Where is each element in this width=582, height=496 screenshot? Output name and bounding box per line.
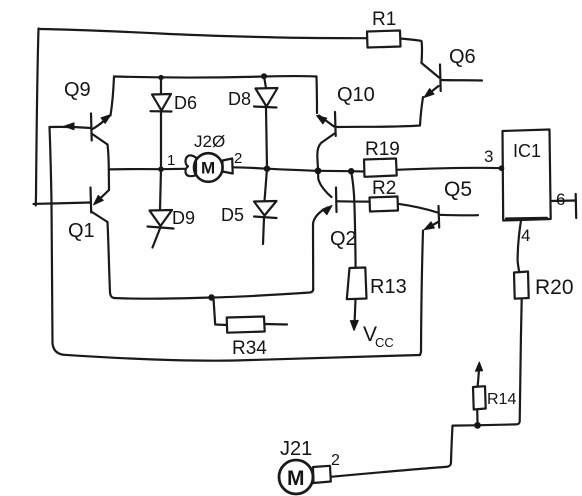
wire R1 to Q6 collector xyxy=(401,39,423,64)
svg-text:Q9: Q9 xyxy=(64,79,91,101)
wire middle rail right of motor xyxy=(233,167,365,171)
wire left inner vertical to bottom rail xyxy=(50,127,65,355)
node R14/R20 junction xyxy=(474,422,481,429)
wire R19 to IC1 pin3 xyxy=(397,168,502,170)
wire Q1 collector down xyxy=(108,222,115,298)
svg-text:IC1: IC1 xyxy=(513,141,541,161)
svg-text:1: 1 xyxy=(167,152,175,169)
svg-text:M: M xyxy=(201,159,215,178)
transistor Q5 xyxy=(424,178,478,230)
wire R2 to Q5 base xyxy=(398,204,438,213)
svg-text:6: 6 xyxy=(556,190,565,209)
node 2 xyxy=(264,166,270,172)
wire Q9 collector / Q1 emitter vertical xyxy=(108,145,110,191)
svg-text:Q2: Q2 xyxy=(330,228,357,250)
wire Q2 emitter vertical xyxy=(313,208,328,290)
wire R13 branch vertical xyxy=(351,171,355,267)
svg-text:4: 4 xyxy=(521,226,530,245)
resistor R34 xyxy=(214,299,288,360)
wire outer left border xyxy=(36,29,39,206)
svg-text:J2Ø: J2Ø xyxy=(194,132,225,151)
resistor R2 xyxy=(370,178,399,212)
wire middle rail (motor row) xyxy=(109,168,185,171)
diode D6 xyxy=(151,78,198,170)
svg-text:D6: D6 xyxy=(174,93,197,113)
diode D5 xyxy=(221,169,277,244)
svg-text:R34: R34 xyxy=(232,338,267,359)
wire bottom inner rail xyxy=(114,290,313,299)
wire Q10 collector to top rail xyxy=(315,77,318,114)
motor J20 xyxy=(167,132,242,182)
resistor R13 xyxy=(347,268,407,300)
node IC1 pin3 xyxy=(499,165,505,171)
svg-text:Q10: Q10 xyxy=(337,84,375,106)
wire Q9 emitter up to rail xyxy=(111,77,115,116)
wire bottom rail xyxy=(64,355,420,361)
wire top rail xyxy=(39,29,366,38)
svg-text:R20: R20 xyxy=(535,276,574,299)
node 1 xyxy=(158,166,164,172)
svg-text:3: 3 xyxy=(484,147,493,166)
svg-text:D5: D5 xyxy=(221,205,244,225)
motor J21 xyxy=(279,438,340,494)
node R13 junction xyxy=(348,168,354,174)
resistor R20 xyxy=(514,272,574,300)
transistor Q2 xyxy=(318,172,369,251)
svg-text:Q5: Q5 xyxy=(444,178,472,201)
wire IC1 pin6 xyxy=(551,190,577,218)
node Q10 emitter junction xyxy=(315,168,322,175)
svg-text:2: 2 xyxy=(234,150,242,167)
diode D8 xyxy=(228,76,278,169)
wire IC1 pin4 xyxy=(518,221,531,273)
svg-text:2: 2 xyxy=(331,452,340,469)
wire R20 down to node xyxy=(481,299,522,426)
wire Q5 emitter down to bottom rail xyxy=(420,231,423,356)
transistor Q10 xyxy=(317,84,375,170)
svg-text:R19: R19 xyxy=(365,139,400,160)
wire top mid rail xyxy=(114,76,317,77)
svg-text:CC: CC xyxy=(375,335,394,350)
power Vcc arrow xyxy=(350,299,393,350)
svg-text:D8: D8 xyxy=(228,89,251,109)
svg-text:R2: R2 xyxy=(372,178,396,199)
resistor R19 xyxy=(364,139,400,177)
diode D9 xyxy=(148,169,196,247)
wire R14 to node xyxy=(476,410,478,423)
wire node to J21 xyxy=(331,425,474,477)
transistor Q6 xyxy=(422,46,483,98)
resistor R14 xyxy=(473,386,516,409)
svg-text:Q1: Q1 xyxy=(68,220,95,242)
svg-text:D9: D9 xyxy=(172,208,195,228)
node top rail D6 xyxy=(158,75,163,80)
transistor Q1 xyxy=(34,188,110,243)
svg-text:R1: R1 xyxy=(372,9,396,30)
svg-text:J21: J21 xyxy=(280,438,312,460)
resistor R1 xyxy=(367,9,401,48)
wire Q6 emitter to Q10 base xyxy=(337,97,423,127)
node bottom inner rail R34 xyxy=(208,294,214,300)
transistor Q9 xyxy=(50,79,112,145)
svg-text:R14: R14 xyxy=(487,391,516,408)
svg-text:M: M xyxy=(287,467,305,490)
IC U1 box IC1 xyxy=(503,130,551,221)
svg-text:R13: R13 xyxy=(370,276,407,298)
wire R14 arrow up xyxy=(475,362,482,386)
node middle junction left xyxy=(108,168,110,170)
node top rail D8 xyxy=(261,73,267,79)
svg-text:Q6: Q6 xyxy=(449,46,476,68)
